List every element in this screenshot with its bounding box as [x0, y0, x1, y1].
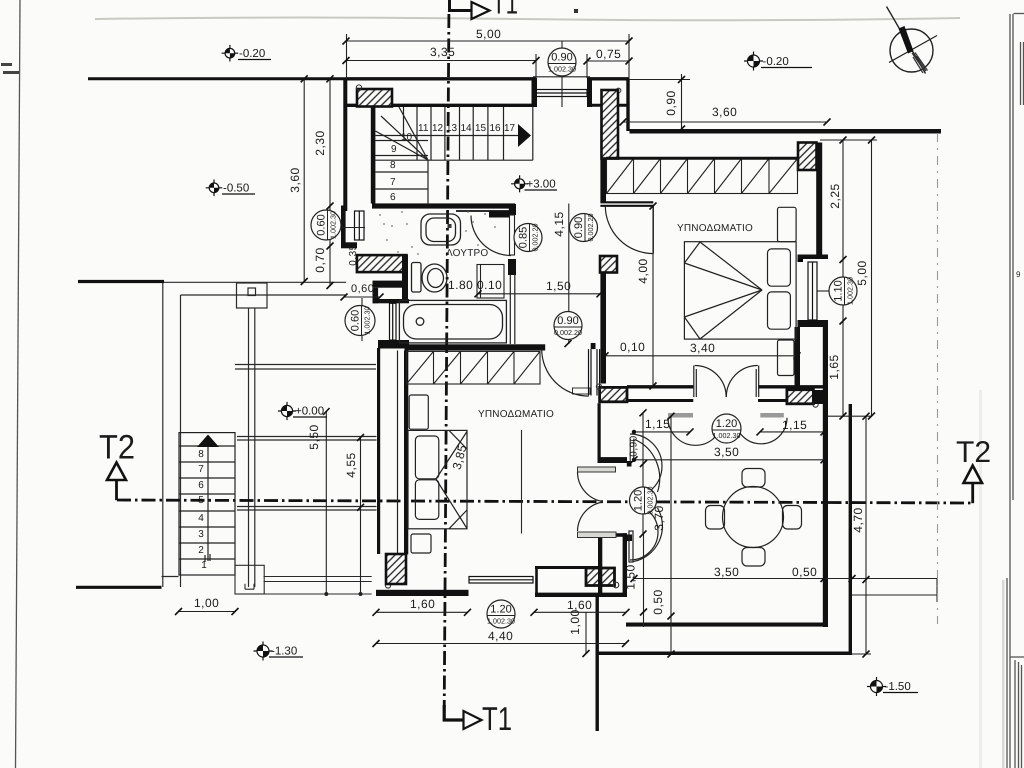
svg-text:0.10: 0.10	[477, 278, 502, 292]
svg-text:8: 8	[390, 160, 396, 171]
svg-text:0,50: 0,50	[792, 565, 817, 579]
svg-text:3,40: 3,40	[690, 341, 715, 355]
svg-text:1,65: 1,65	[827, 354, 841, 379]
svg-text:12: 12	[432, 123, 444, 134]
svg-text:9: 9	[391, 144, 397, 155]
svg-text:0.002.20: 0.002.20	[586, 214, 595, 242]
svg-text:5,50: 5,50	[307, 424, 321, 449]
svg-text:2,30: 2,30	[313, 130, 327, 155]
svg-text:0.002.20: 0.002.20	[531, 224, 540, 252]
svg-text:1: 1	[201, 560, 207, 571]
svg-text:1.002.30: 1.002.30	[487, 617, 515, 626]
svg-text:0,90: 0,90	[664, 90, 678, 115]
svg-text:3,60: 3,60	[288, 167, 302, 192]
svg-text:0.90: 0.90	[557, 315, 578, 327]
svg-text:4,70: 4,70	[851, 507, 865, 532]
svg-text:1,50: 1,50	[624, 564, 638, 589]
svg-text:5,00: 5,00	[855, 260, 869, 285]
svg-text:0.60: 0.60	[350, 310, 362, 331]
svg-text:0,50: 0,50	[651, 589, 665, 614]
svg-text:0.90: 0.90	[551, 52, 572, 64]
svg-text:0,75: 0,75	[596, 47, 621, 61]
svg-text:13: 13	[446, 123, 458, 134]
svg-text:0.002.30: 0.002.30	[646, 487, 655, 515]
svg-text:8: 8	[198, 449, 204, 460]
svg-text:1.20: 1.20	[490, 604, 511, 616]
svg-text:ΛΟΥΤΡΟ: ΛΟΥΤΡΟ	[446, 248, 488, 259]
svg-text:-0.20: -0.20	[763, 56, 789, 68]
svg-text:ΥΠΝΟΔΩΜΑΤΙΟ: ΥΠΝΟΔΩΜΑΤΙΟ	[677, 223, 753, 234]
svg-text:10: 10	[401, 132, 413, 143]
svg-text:7: 7	[198, 464, 204, 475]
svg-text:2: 2	[198, 545, 204, 556]
svg-text:0.002.20: 0.002.20	[554, 328, 582, 337]
svg-text:0,70: 0,70	[313, 247, 327, 272]
svg-text:11: 11	[418, 123, 429, 134]
svg-text:1,50: 1,50	[546, 279, 571, 293]
svg-text:0.90: 0.90	[573, 217, 585, 238]
svg-text:9: 9	[1016, 270, 1021, 279]
svg-text:-0.20: -0.20	[239, 48, 265, 60]
svg-text:1.20: 1.20	[633, 490, 645, 511]
svg-text:1.002.30: 1.002.30	[548, 65, 576, 74]
svg-text:1,15: 1,15	[782, 418, 807, 432]
svg-text:1.80: 1.80	[448, 278, 473, 292]
svg-text:0,90: 0,90	[629, 435, 640, 456]
svg-text:16: 16	[490, 123, 502, 134]
svg-text:+3.00: +3.00	[527, 179, 556, 191]
svg-text:1,00: 1,00	[194, 596, 219, 610]
svg-text:4,15: 4,15	[552, 211, 566, 236]
svg-text:1,00: 1,00	[568, 609, 582, 634]
svg-text:T1: T1	[482, 700, 512, 737]
svg-text:3,50: 3,50	[714, 445, 739, 459]
svg-text:3,50: 3,50	[714, 565, 739, 579]
svg-text:2,25: 2,25	[828, 183, 842, 208]
svg-text:ΥΠΝΟΔΩΜΑΤΙΟ: ΥΠΝΟΔΩΜΑΤΙΟ	[478, 409, 554, 420]
svg-text:3,60: 3,60	[712, 105, 737, 119]
svg-text:6: 6	[390, 192, 396, 203]
svg-text:-1.50: -1.50	[885, 681, 911, 693]
svg-text:0,10: 0,10	[620, 340, 645, 354]
svg-text:4,40: 4,40	[488, 629, 513, 643]
svg-text:4,55: 4,55	[344, 452, 358, 477]
svg-text:1.002.30: 1.002.30	[846, 277, 855, 305]
svg-text:0.60: 0.60	[316, 214, 328, 235]
svg-text:4,00: 4,00	[636, 258, 650, 283]
svg-text:1.20: 1.20	[716, 418, 737, 430]
svg-text:-1.30: -1.30	[271, 646, 297, 658]
svg-text:17: 17	[504, 123, 516, 134]
svg-text:3,35: 3,35	[430, 45, 455, 59]
svg-text:6: 6	[198, 480, 204, 491]
svg-text:3: 3	[198, 529, 204, 540]
svg-text:4: 4	[198, 513, 204, 524]
svg-text:1,15: 1,15	[645, 417, 670, 431]
svg-text:1.10: 1.10	[833, 280, 845, 301]
svg-text:7: 7	[390, 177, 396, 188]
svg-text:1.002.30: 1.002.30	[363, 307, 372, 335]
svg-text:1.002.30: 1.002.30	[713, 431, 741, 440]
svg-text:+0.00: +0.00	[295, 406, 324, 418]
svg-text:-0.50: -0.50	[223, 183, 249, 195]
svg-text:0.35: 0.35	[348, 244, 359, 265]
svg-text:15: 15	[475, 123, 487, 134]
svg-text:0.85: 0.85	[518, 227, 530, 248]
svg-text:14: 14	[461, 123, 473, 134]
svg-text:T2: T2	[956, 436, 991, 469]
svg-text:0,60: 0,60	[351, 283, 374, 295]
svg-text:1,60: 1,60	[410, 597, 435, 611]
svg-text:T1: T1	[492, 0, 518, 21]
svg-text:1.002.30: 1.002.30	[329, 211, 338, 239]
svg-text:5,00: 5,00	[476, 27, 501, 41]
